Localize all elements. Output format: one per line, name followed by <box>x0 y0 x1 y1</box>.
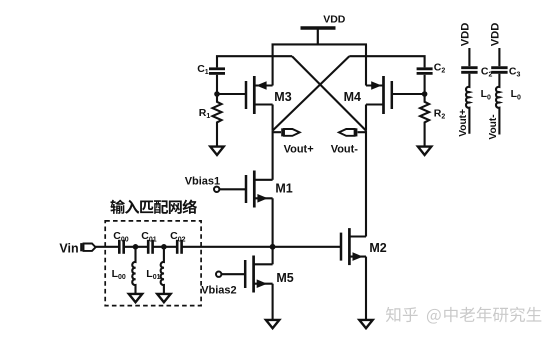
wire M4 source to Vout- node <box>365 105 367 131</box>
power supply VDD symbol <box>301 28 336 44</box>
ground below M2 <box>359 320 372 328</box>
inductor L0 (branch 2) <box>496 74 499 135</box>
capacitor C02 <box>177 240 181 254</box>
inductor L00 <box>132 247 135 294</box>
wire Vbias2 to M5 gate <box>221 273 245 275</box>
port Vout- <box>358 131 366 133</box>
wire cross-coupling C1 to Vout- node <box>292 56 366 130</box>
node M3 gate junction <box>214 91 220 97</box>
wire Vout- node to M2 drain <box>365 131 367 237</box>
wire input rail <box>95 246 341 248</box>
wire VDD rail to M4 source <box>365 44 367 85</box>
wire Vout+ node to M1 drain <box>272 131 274 180</box>
wire C2 top rail <box>349 56 424 67</box>
svg-text:Vout-: Vout- <box>488 114 499 139</box>
wire M3 source to Vout+ node <box>272 105 274 131</box>
ground below R1 <box>210 147 223 155</box>
svg-text:M2: M2 <box>369 241 386 255</box>
svg-text:VDD: VDD <box>489 23 501 47</box>
svg-text:VDD: VDD <box>459 23 471 47</box>
wire VDD to C3 (branch 2) <box>498 48 500 66</box>
svg-text:Vout+: Vout+ <box>458 109 469 137</box>
wire VDD rail to M3 source <box>272 44 274 85</box>
resistor R2 <box>420 94 429 147</box>
svg-text:Vin: Vin <box>59 242 78 256</box>
wire C1 top rail <box>217 56 292 67</box>
watermark 知乎 @中老年研究生 <box>386 307 542 324</box>
wire M4 gate lead <box>392 93 425 95</box>
transistor M4 <box>366 76 392 114</box>
wire M1 source to tail node <box>272 198 274 247</box>
capacitor C2 (output branch 1) <box>461 68 477 73</box>
svg-text:M1: M1 <box>275 182 292 196</box>
label 输入匹配网络 <box>110 199 197 213</box>
svg-text:M4: M4 <box>344 90 361 104</box>
capacitor C00 <box>119 240 123 254</box>
svg-text:M5: M5 <box>276 271 293 285</box>
port Vbias2 <box>216 272 221 277</box>
transistor M1 <box>246 171 273 208</box>
capacitor C01 <box>148 240 152 254</box>
inductor L01 <box>161 247 164 294</box>
port Vbias1 <box>214 187 219 192</box>
ground below L01 <box>157 294 170 302</box>
wire Vbias1 to M1 gate <box>219 188 246 190</box>
node L01 junction <box>161 244 167 250</box>
capacitor C3 (output branch 2) <box>491 68 507 73</box>
transistor M2 <box>341 228 366 265</box>
wire node to M3 gate <box>217 93 246 95</box>
dashed box input matching network <box>105 221 201 306</box>
ground below M5 <box>266 320 279 328</box>
svg-text:M3: M3 <box>274 90 291 104</box>
svg-text:VDD: VDD <box>323 14 346 26</box>
svg-text:Vbias1: Vbias1 <box>185 175 220 187</box>
inductor L0 (branch 1) <box>466 74 469 134</box>
port Vout+ <box>273 131 281 133</box>
wire VDD to C2 (branch 1) <box>468 48 470 66</box>
wire M2 source to ground <box>365 257 367 320</box>
wire cross-coupling C2 to Vout+ node <box>273 56 350 130</box>
capacitor C2 <box>417 69 433 74</box>
resistor R1 <box>213 94 222 147</box>
ground below R2 <box>418 147 431 155</box>
wire M5 source to ground <box>272 284 274 320</box>
transistor M3 <box>246 76 273 114</box>
port Vin <box>80 243 82 251</box>
capacitor C1 <box>209 69 225 74</box>
transistor M5 <box>245 256 272 293</box>
wire M5 drain to tail node <box>272 247 274 264</box>
node tail junction <box>270 244 276 250</box>
svg-text:Vbias2: Vbias2 <box>201 285 236 297</box>
node M4 gate junction <box>422 91 428 97</box>
node L00 junction <box>133 244 139 250</box>
ground below L00 <box>129 294 142 302</box>
svg-text:Vout+: Vout+ <box>284 144 314 156</box>
svg-text:Vout-: Vout- <box>331 144 359 156</box>
wire VDD rail <box>272 43 368 45</box>
